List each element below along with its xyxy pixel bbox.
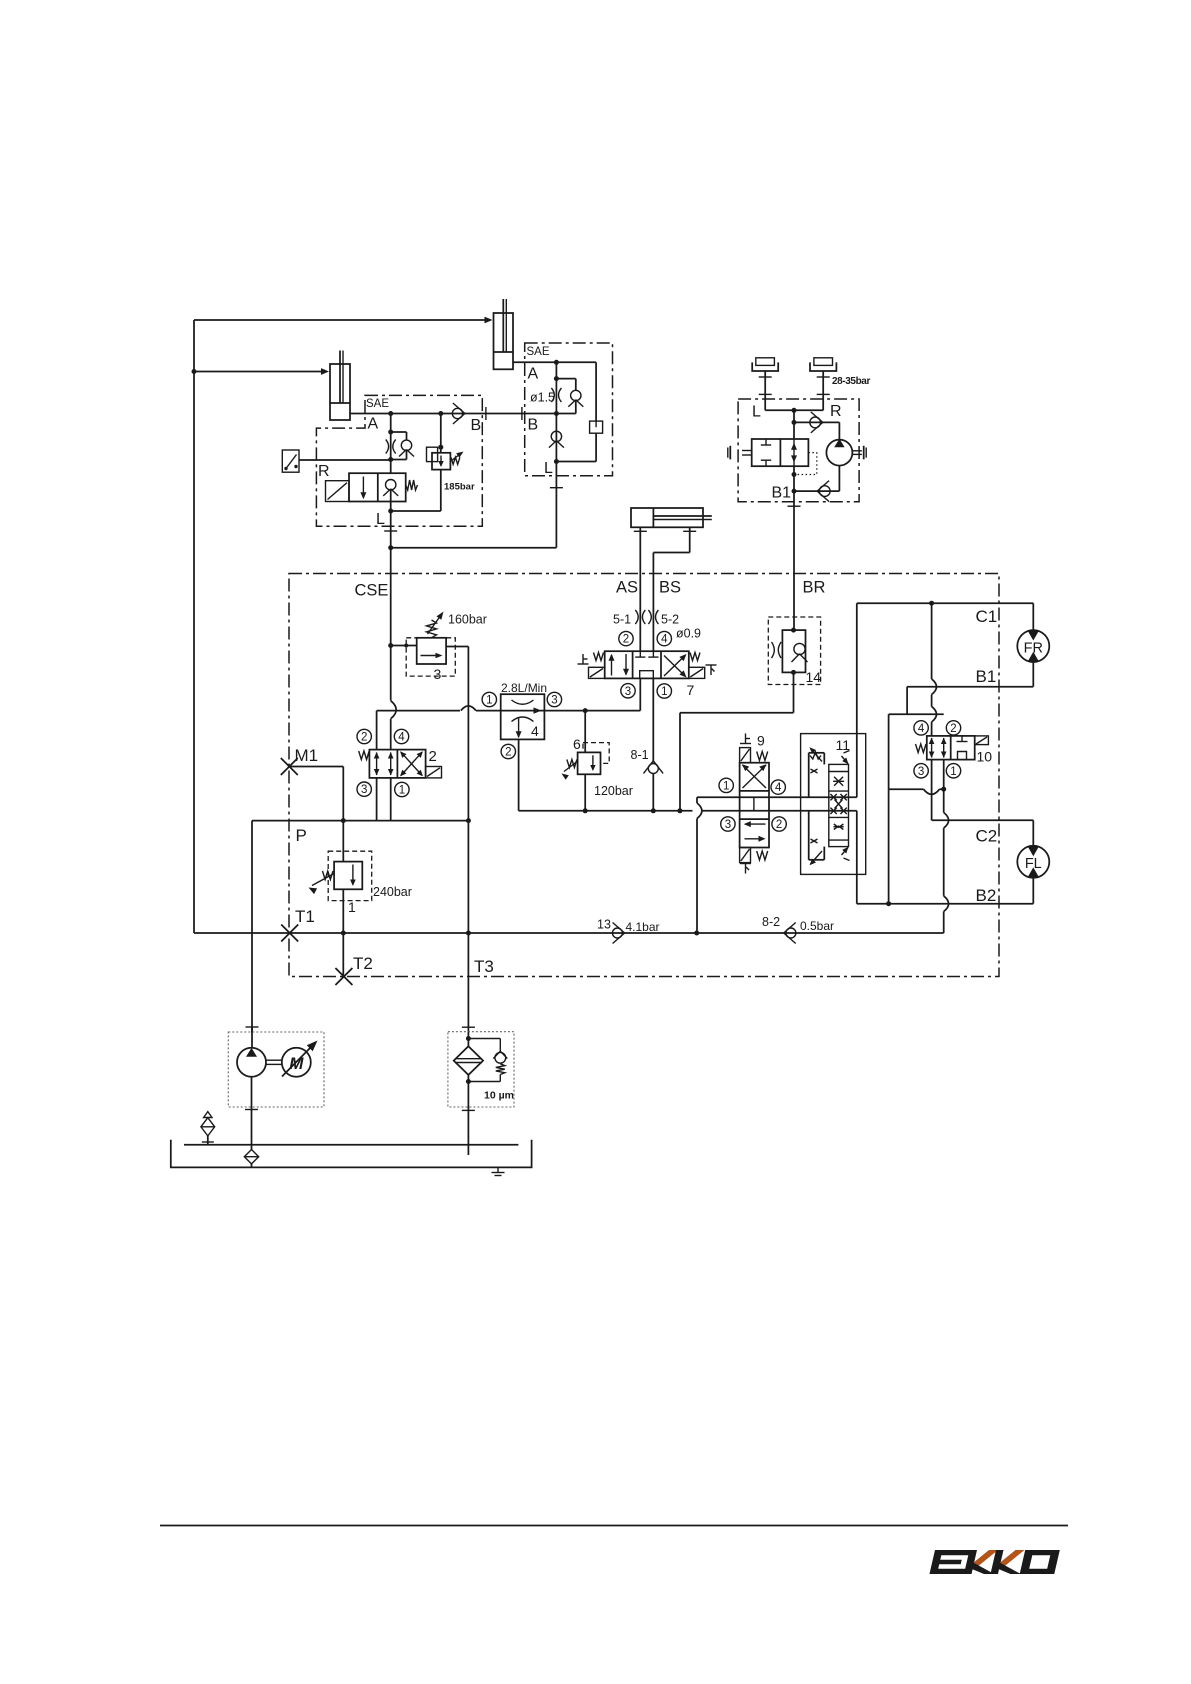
svg-text:SAE: SAE: [366, 398, 389, 410]
logo EKKO: [929, 1550, 1059, 1574]
svg-text:T3: T3: [474, 957, 494, 976]
valve2 X cell: [401, 752, 422, 775]
footer rule: [160, 1525, 1068, 1527]
svg-text:8-2: 8-2: [762, 915, 780, 929]
enclosure valve10 top edge: [889, 713, 944, 715]
wire T3 riser: [467, 821, 469, 1032]
port 2: [501, 744, 515, 758]
wire tank gallery T line: [194, 932, 944, 934]
wire B1 line: [907, 686, 1033, 688]
wire L drain down: [390, 511, 392, 548]
motor FR: [1032, 603, 1034, 630]
wire 185bar to L: [440, 470, 442, 511]
check valve inside valve14: [794, 643, 805, 654]
svg-text:A: A: [368, 416, 379, 433]
block11 top-left pilot branch: [808, 753, 810, 797]
suction strainer: [244, 1150, 258, 1164]
label shang 9: [745, 734, 747, 744]
valve7 solenoids: [589, 667, 605, 678]
brake pilot dotted line: [794, 453, 817, 475]
wire cylinder1 A port: [350, 413, 391, 415]
wire cylinder2 A port: [513, 361, 556, 363]
wire valve3 supply: [391, 645, 417, 647]
svg-text:6: 6: [573, 736, 581, 752]
relief valve 1 240bar pilot box: [342, 821, 344, 862]
svg-text:BR: BR: [803, 579, 826, 597]
svg-text:0.5bar: 0.5bar: [800, 919, 834, 933]
svg-text:2.8L/Min: 2.8L/Min: [501, 681, 547, 695]
wire M1 line: [289, 766, 343, 768]
svg-text:FR: FR: [1024, 640, 1043, 656]
wire L drain right block: [555, 462, 557, 548]
port 2: [619, 631, 633, 645]
svg-text:1: 1: [723, 780, 729, 792]
wire BS line: [689, 527, 691, 552]
svg-text:L: L: [376, 511, 385, 528]
svg-text:120bar: 120bar: [594, 784, 633, 798]
block11 spool: [829, 764, 849, 846]
port 4: [394, 729, 408, 743]
relief valve 3 160bar pilot box: [406, 638, 455, 676]
svg-text:B: B: [471, 417, 482, 434]
valve block SAE left (dash-dot boundary): [316, 395, 482, 526]
svg-text:1: 1: [399, 785, 405, 797]
enclosure valve10 left edge: [888, 714, 890, 789]
svg-text:4.1bar: 4.1bar: [626, 920, 660, 934]
tank outline: [171, 1140, 532, 1168]
wire trunk A to B: [555, 362, 557, 461]
valve9 top solenoid: [740, 748, 751, 763]
filter bypass check valve: [468, 1038, 500, 1040]
valve9 lower arrows: [745, 823, 766, 825]
svg-text:1: 1: [661, 686, 667, 698]
flow control valve 4 (2.8L/Min): [501, 694, 545, 739]
wire valve6 supply: [584, 711, 586, 753]
check valve bypass right block: [556, 378, 575, 380]
wire valve6 drain: [584, 774, 586, 811]
wire valve10 drain with hops: [943, 760, 945, 790]
valve10 spring: [916, 744, 927, 753]
svg-text:2: 2: [623, 634, 629, 646]
svg-text:R: R: [830, 403, 842, 420]
svg-text:3: 3: [725, 819, 731, 831]
valve9 bottom spring: [757, 851, 768, 860]
svg-text:B2: B2: [976, 886, 997, 905]
brake unit box (dash-dot): [738, 399, 859, 502]
connector ticks cylinder: [634, 530, 647, 532]
wire A line: [391, 413, 441, 415]
valve 10 body: [927, 736, 975, 760]
tank surface line: [184, 1144, 518, 1146]
wire relief1 to T: [342, 889, 344, 976]
wire feed to cylinder 1: [194, 371, 325, 373]
block11 top-right pilot arrow: [842, 756, 849, 764]
valve block 11 box: [801, 734, 866, 875]
brake valve left plunger: [742, 450, 752, 452]
check valve bypass loop: [391, 431, 407, 433]
wire outer left line: [193, 320, 195, 933]
valve9 X cell: [743, 765, 767, 788]
wire R line: [299, 459, 391, 461]
node junction on left line: [192, 369, 197, 374]
port 4: [657, 631, 671, 645]
check valve upper brake: [794, 421, 839, 423]
valve7 left cell arrows: [611, 655, 613, 676]
filter unit box: [448, 1032, 514, 1107]
svg-text:C2: C2: [976, 827, 998, 846]
svg-text:5-2: 5-2: [661, 613, 679, 627]
svg-text:7: 7: [687, 682, 695, 698]
breather: [207, 1136, 209, 1145]
svg-text:160bar: 160bar: [448, 613, 487, 627]
cylinder (left tilt cylinder): [330, 364, 350, 420]
brake 2pos valve body: [752, 439, 809, 466]
wire BR return: [793, 672, 795, 712]
valve block CSE (dash-dot boundary): [289, 574, 999, 977]
label xia: [740, 863, 751, 865]
relief valve 3 body: [417, 638, 446, 664]
port 3: [547, 692, 561, 706]
port 1: [482, 692, 496, 706]
svg-text:13: 13: [597, 918, 611, 932]
pump unit box: [228, 1032, 324, 1107]
svg-text:9: 9: [757, 733, 765, 749]
svg-text:4: 4: [918, 723, 925, 735]
orifice 1.5: [551, 388, 554, 402]
svg-text:ø1.5: ø1.5: [530, 391, 555, 405]
svg-text:185bar: 185bar: [444, 482, 475, 493]
svg-text:4: 4: [775, 782, 782, 794]
connector ticks B line: [485, 407, 487, 420]
wire pump riser: [251, 821, 253, 1032]
svg-text:5-1: 5-1: [613, 613, 631, 627]
port 2: [357, 729, 371, 743]
svg-text:B1: B1: [772, 485, 792, 502]
wire trunk A to L: [390, 414, 392, 474]
port 2: [946, 721, 960, 735]
wire C1 link vertical: [856, 603, 858, 797]
port 4: [914, 721, 928, 735]
orifice on trunk: [388, 430, 393, 435]
valve9 top spring: [757, 752, 768, 761]
tank ground mark: [497, 1167, 499, 1172]
port 3: [721, 817, 735, 831]
svg-text:BS: BS: [659, 579, 681, 597]
svg-text:2: 2: [776, 819, 782, 831]
brake motor right plunger: [852, 450, 862, 452]
svg-text:2: 2: [950, 723, 956, 735]
svg-text:FL: FL: [1025, 856, 1042, 872]
port 3: [621, 684, 635, 698]
wire AS line: [639, 527, 641, 651]
relief valve 6 pilot box: [583, 743, 609, 764]
wire trunk hop over main line: [390, 646, 392, 701]
check valve 8-1: [648, 764, 658, 774]
orifice 5-2: [648, 610, 651, 624]
svg-text:T1: T1: [295, 907, 315, 926]
solenoid valve (lowering valve, left block): [349, 473, 406, 501]
svg-text:4: 4: [531, 723, 539, 739]
svg-text:AS: AS: [616, 579, 638, 597]
pump P1: [251, 1027, 253, 1048]
svg-text:3: 3: [918, 766, 924, 778]
wire main CSE line: [376, 711, 378, 750]
wire filter out: [467, 1075, 469, 1155]
label xia: [706, 664, 717, 666]
svg-text:240bar: 240bar: [373, 885, 412, 899]
svg-text:1: 1: [348, 899, 356, 915]
svg-text:10: 10: [977, 749, 993, 765]
filter element: [454, 1046, 483, 1075]
valve 14 body: [782, 630, 805, 672]
brake actuator R: [814, 358, 833, 366]
svg-text:T2: T2: [353, 954, 373, 973]
svg-text:10 µm: 10 µm: [484, 1090, 514, 1102]
svg-text:3: 3: [551, 695, 557, 707]
valve9 center stub: [753, 797, 755, 811]
port 3: [357, 782, 371, 796]
pump shaft: [266, 1059, 282, 1061]
wire B2 line: [857, 903, 1034, 905]
wire valve7 port3 to main: [639, 678, 641, 710]
wire C1-C2 through valve10: [931, 603, 933, 679]
valve 7 body: [605, 651, 689, 678]
svg-text:1: 1: [950, 766, 956, 778]
relief valve 6 body: [578, 752, 601, 774]
valve 14 pilot box: [768, 617, 820, 685]
svg-text:2: 2: [361, 732, 367, 744]
brake motor: [826, 440, 852, 466]
block11 bottom-left pilot branch: [808, 811, 810, 860]
svg-text:3: 3: [434, 666, 442, 682]
svg-text:1: 1: [486, 695, 492, 707]
wire lower gallery line: [585, 810, 692, 812]
motor M: [282, 1048, 311, 1077]
wire B2 link vertical: [856, 811, 858, 904]
svg-text:B: B: [528, 417, 539, 434]
valve7 right cell X arrows: [664, 656, 685, 677]
wire trunk through valve to L: [390, 490, 392, 511]
wire brake trunk lower: [793, 466, 795, 502]
check valve on trunk: [551, 431, 561, 441]
motor FL: [1032, 820, 1034, 846]
svg-text:CSE: CSE: [355, 582, 389, 600]
svg-text:4: 4: [398, 732, 405, 744]
svg-text:3: 3: [361, 784, 367, 796]
wire top feed line: [194, 319, 489, 321]
valve10 solenoid: [975, 736, 989, 745]
wire valve2 lower ports: [376, 778, 378, 821]
svg-text:2: 2: [429, 748, 437, 765]
wire valve4 port2 down: [518, 739, 520, 810]
svg-text:8-1: 8-1: [631, 748, 649, 762]
wire valve9 gallery A: [697, 796, 857, 798]
wire C1 line: [857, 602, 1034, 604]
svg-text:P: P: [296, 826, 307, 845]
check valve on B line: [441, 413, 557, 415]
wire valve7 port1 down: [652, 678, 654, 762]
port 4: [771, 780, 785, 794]
port 1: [657, 684, 671, 698]
cylinder (center tilt cylinder): [494, 313, 513, 369]
wire drain to tank: [696, 797, 698, 803]
valve9 bottom solenoid: [740, 848, 751, 863]
valve2 spring: [359, 751, 370, 760]
relief valve 185bar: [440, 414, 442, 453]
check valve 13: [612, 928, 622, 938]
svg-text:M1: M1: [295, 746, 319, 765]
svg-text:A: A: [528, 366, 539, 383]
wire trunk into CSE: [388, 643, 393, 648]
enclosure valve10 bottom edge with hop: [889, 788, 924, 790]
valve2 solenoid: [426, 767, 442, 778]
port 1: [719, 778, 733, 792]
check valve lower brake: [794, 490, 839, 492]
check valve 8-2: [786, 928, 796, 938]
wire pump suction: [251, 1077, 253, 1150]
label shang: [582, 654, 584, 664]
wire valve3 out down: [446, 646, 468, 648]
valve7 center T ports: [639, 651, 641, 657]
valve 2 body: [369, 750, 425, 778]
orifice valve14: [772, 642, 775, 658]
svg-text:L: L: [544, 460, 553, 477]
wire A line right block: [556, 361, 596, 363]
wire A branch down: [595, 362, 597, 421]
svg-text:2: 2: [505, 747, 511, 759]
svg-text:3: 3: [625, 686, 631, 698]
orifice 5-1: [635, 610, 638, 624]
brake actuator L: [756, 358, 775, 366]
wire brake trunk: [793, 410, 795, 439]
valve 9 body: [740, 763, 769, 848]
port 2: [772, 817, 786, 831]
horizontal cylinder (reach cylinder): [631, 508, 703, 527]
svg-text:28-35bar: 28-35bar: [832, 376, 870, 387]
port 1: [395, 782, 409, 796]
svg-text:4: 4: [661, 634, 668, 646]
valve block SAE right (dash-dot boundary): [525, 343, 613, 476]
wire P gallery: [252, 820, 468, 822]
wire B1 down to BR: [793, 502, 795, 630]
svg-text:14: 14: [806, 669, 822, 685]
port 3: [914, 764, 928, 778]
svg-text:ø0.9: ø0.9: [676, 627, 701, 641]
port 1: [946, 764, 960, 778]
svg-text:C1: C1: [976, 607, 998, 626]
svg-text:R: R: [318, 463, 330, 480]
svg-text:L: L: [752, 404, 761, 421]
plug component: [590, 421, 603, 433]
block11 bottom-right pilot arrow: [842, 848, 849, 856]
switch S1: [282, 450, 299, 472]
wire L cross link: [391, 547, 557, 549]
svg-text:SAE: SAE: [527, 346, 550, 358]
wire C2 line: [932, 819, 1034, 821]
svg-text:B1: B1: [976, 667, 997, 686]
relief valve 1 body: [334, 862, 362, 890]
valve7 springs: [594, 653, 604, 661]
wire into filter: [467, 1032, 469, 1047]
wire B1 to B2 link: [888, 789, 890, 904]
